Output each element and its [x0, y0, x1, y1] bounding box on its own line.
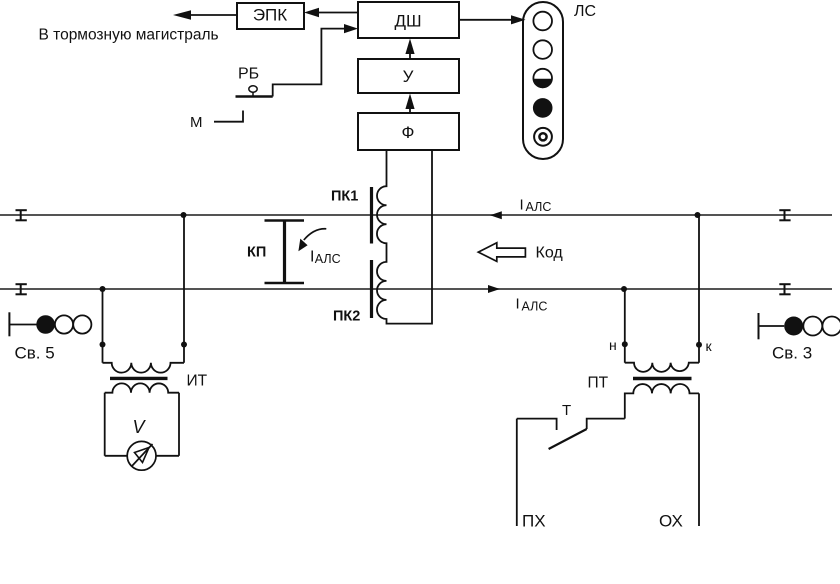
transformer IT secondary winding: [105, 383, 179, 392]
signal Sv3 lamp open 1: [803, 317, 822, 336]
svg-text:Код: Код: [536, 244, 564, 261]
terminal dot right IT: [181, 342, 187, 348]
svg-text:Т: Т: [562, 402, 571, 419]
junction rail1 at x698: [695, 212, 701, 218]
label I ALS rail1: [520, 196, 552, 214]
LS lamp 1 (open): [533, 12, 552, 31]
svg-text:КП: КП: [247, 245, 266, 261]
signal Sv3 mast: [759, 313, 785, 339]
wire meter to bottom right: [156, 455, 179, 457]
arrow F to U: [405, 94, 414, 114]
wire IT secondary right down: [178, 393, 180, 456]
junction rail2 at x624: [621, 286, 627, 292]
switch T blade: [549, 429, 587, 449]
svg-text:Св. 5: Св. 5: [15, 344, 55, 363]
junction rail1 at x184: [181, 212, 187, 218]
arrow EPK to brake main: [173, 10, 237, 19]
block F (Ф filter): [358, 113, 459, 150]
contact M: [190, 111, 243, 132]
transformer PT core: [633, 377, 692, 380]
signal Sv5 lamp open 2: [73, 315, 91, 333]
receiver coils circuit wire from F: [377, 150, 432, 324]
svg-text:Св. 3: Св. 3: [772, 344, 812, 363]
svg-text:М: М: [190, 114, 203, 131]
svg-text:V: V: [133, 417, 147, 437]
curved current arrow at wheelset: [298, 229, 326, 251]
wire RB to DSh with arrow: [273, 24, 358, 97]
wire to PH: [516, 419, 518, 526]
rail 1 (upper): [0, 214, 832, 216]
svg-text:АЛС: АЛС: [526, 200, 552, 214]
svg-text:I: I: [520, 196, 524, 213]
signal Sv3 lamp open 2: [822, 317, 840, 336]
svg-text:У: У: [403, 67, 414, 86]
transformer PT secondary winding: [625, 384, 699, 419]
svg-text:АЛС: АЛС: [315, 252, 341, 266]
svg-text:ОХ: ОХ: [659, 512, 683, 531]
arrow DSh to LS: [459, 15, 526, 24]
svg-text:ПК2: ПК2: [333, 309, 360, 325]
coil PK2 core: [370, 260, 373, 318]
svg-text:РБ: РБ: [238, 66, 259, 83]
svg-text:ЭПК: ЭПК: [253, 6, 287, 25]
block U (У amplifier): [358, 59, 459, 93]
transformer PT primary winding: [625, 363, 699, 372]
block EPK (ЭПК): [237, 3, 304, 29]
LS lamp 4 (filled): [533, 98, 553, 118]
arrow U to DSh: [405, 39, 414, 60]
terminal dot left IT: [100, 342, 106, 348]
signal Sv3 lamp filled: [784, 317, 803, 336]
insulated joint rail1 left: [16, 210, 27, 221]
code arrow (Код): [478, 243, 525, 262]
wire PT secondary right to OH: [698, 393, 700, 526]
junction rail2 at x102: [100, 286, 106, 292]
svg-text:ПТ: ПТ: [588, 375, 609, 392]
wheelset KP axle: [265, 220, 305, 284]
terminal dot k: [696, 342, 702, 348]
locomotive signal LS (ЛС) housing: [523, 2, 563, 159]
svg-text:ПК1: ПК1: [331, 189, 358, 205]
signal Sv5 lamp filled: [36, 315, 55, 334]
wire bottom left to meter: [105, 455, 128, 457]
switch T left lead: [517, 419, 557, 430]
svg-text:н: н: [609, 337, 617, 353]
voltmeter V: [127, 441, 156, 470]
insulated joint rail2 right: [779, 284, 790, 295]
signal Sv5 lamp open 1: [55, 315, 73, 333]
transformer IT primary winding: [103, 363, 185, 373]
svg-text:АЛС: АЛС: [522, 300, 548, 314]
wire IT secondary left down: [104, 393, 106, 456]
signal Sv5 mast: [9, 312, 36, 336]
LS lamp 3 (half-filled): [533, 69, 552, 88]
svg-text:ЛС: ЛС: [574, 3, 596, 20]
svg-text:Ф: Ф: [402, 123, 415, 142]
wire rail2 to PT left: [624, 289, 626, 363]
LS lamp 5 (ring with dot): [534, 128, 552, 146]
label I ALS rail2: [516, 296, 548, 314]
wire rail1 to IT primary right: [183, 215, 185, 363]
LS lamp 2 (open): [533, 40, 552, 59]
svg-text:I: I: [516, 296, 520, 313]
arrow I ALS on rail2: [488, 285, 500, 293]
transformer IT core: [110, 377, 168, 380]
label I ALS at wheelset: [310, 249, 341, 267]
pushbutton RB (РБ vigilance button): [236, 66, 273, 97]
rail 2 (lower): [0, 288, 832, 290]
svg-text:I: I: [310, 249, 314, 266]
switch T right lead: [587, 419, 625, 429]
svg-text:ДШ: ДШ: [394, 11, 421, 30]
insulated joint rail1 right: [779, 210, 790, 221]
svg-text:к: к: [706, 338, 713, 354]
svg-text:ПХ: ПХ: [522, 512, 546, 531]
insulated joint rail2 left: [16, 284, 27, 295]
svg-text:В тормозную магистраль: В тормозную магистраль: [39, 27, 219, 44]
arrow I ALS on rail1: [490, 211, 502, 219]
wire rail2 to IT primary left: [102, 289, 104, 363]
svg-text:ИТ: ИТ: [187, 373, 208, 390]
arrow DSh to EPK: [304, 8, 358, 17]
block DSh (ДШ decoder): [358, 2, 459, 38]
coil PK1 core: [370, 187, 373, 244]
wire rail1 to PT right: [698, 215, 700, 363]
terminal dot n: [622, 341, 628, 347]
